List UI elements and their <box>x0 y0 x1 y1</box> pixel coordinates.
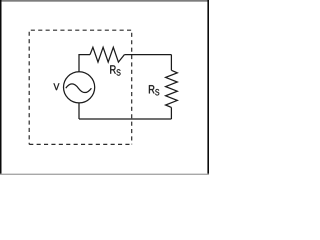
source V: sine wave <box>66 84 92 93</box>
frame left edge <box>0 0 2 175</box>
label V (source) <box>54 83 60 90</box>
wire: top rail right segment <box>124 54 171 56</box>
dashed source box: top edge <box>29 29 132 31</box>
source V: circle <box>64 72 95 103</box>
frame right edge <box>207 0 209 175</box>
label RS (load resistor) <box>149 85 159 95</box>
frame bottom edge <box>0 174 209 175</box>
wire: source bottom <box>78 103 80 119</box>
wire: right top drop <box>170 55 172 71</box>
dashed source box: left edge <box>28 30 30 144</box>
wire: right bottom drop <box>170 107 172 119</box>
wire: bottom rail <box>79 118 171 120</box>
resistor RS (load, vertical zigzag) <box>166 70 178 107</box>
dashed source box: right edge <box>131 30 133 144</box>
label RS (series resistor) <box>110 65 120 75</box>
frame top edge <box>0 0 209 2</box>
wire: source top to top rail <box>79 55 90 72</box>
resistor RS (series, horizontal zigzag) <box>90 47 124 62</box>
dashed source box: bottom edge <box>29 143 132 145</box>
